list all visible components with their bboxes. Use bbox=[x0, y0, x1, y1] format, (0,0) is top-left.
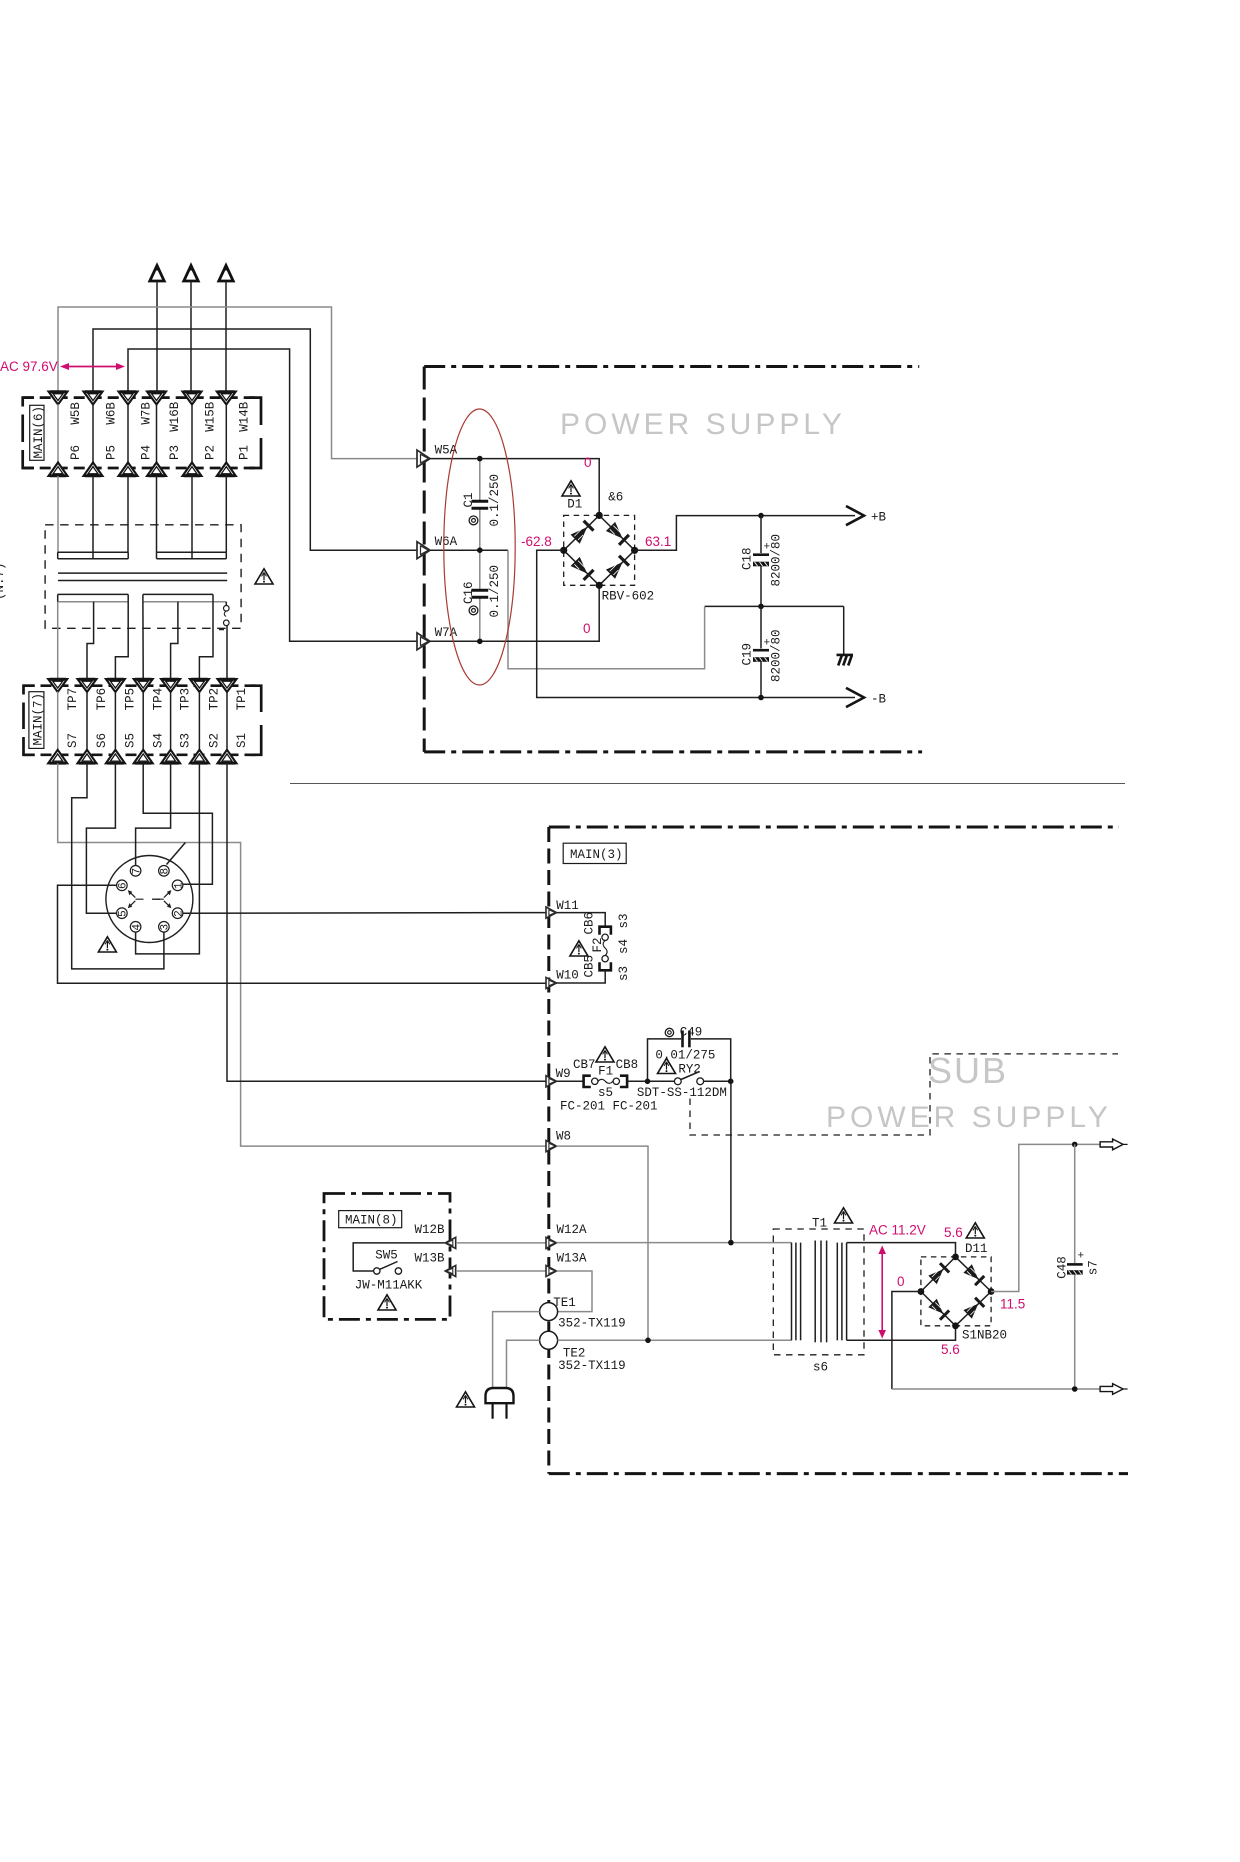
section title POWER SUPPLY bbox=[560, 408, 846, 441]
wire S5 to round pin 5 bbox=[86, 763, 116, 913]
round connector pin 4 bbox=[130, 922, 143, 933]
section title SUB bbox=[928, 1050, 1008, 1091]
connector pin TP3/S3 bbox=[161, 679, 180, 763]
capacitor C48 bbox=[1055, 1144, 1100, 1389]
pin label S7 bbox=[66, 733, 80, 748]
fuse F1 with holders CB7/CB8 bbox=[557, 1058, 658, 1114]
junction node C18/+B bbox=[758, 513, 764, 519]
svg-text:F1: F1 bbox=[598, 1065, 613, 1079]
wire W13A to TE1 bbox=[557, 1271, 593, 1312]
svg-text:MAIN(6): MAIN(6) bbox=[32, 406, 46, 459]
input arrow W5A bbox=[417, 444, 458, 468]
off-page connector arrow 1 bbox=[150, 263, 164, 281]
svg-text:C49: C49 bbox=[680, 1025, 703, 1039]
output arrow W12B bbox=[415, 1223, 456, 1248]
round connector pin 8 bbox=[159, 866, 172, 877]
transformer secondary winding left group bbox=[58, 594, 129, 601]
svg-text:SW5: SW5 bbox=[375, 1249, 398, 1263]
svg-text:CB6: CB6 bbox=[582, 912, 596, 935]
svg-text:MAIN(7): MAIN(7) bbox=[31, 693, 45, 746]
wire bbox=[190, 281, 192, 392]
svg-text:W11: W11 bbox=[556, 899, 579, 913]
connector pin P5 bbox=[84, 392, 103, 477]
svg-text:AC 11.2V: AC 11.2V bbox=[869, 1223, 926, 1238]
diode bridge D11 S1NB20 bbox=[918, 1254, 995, 1330]
svg-text:CB5: CB5 bbox=[582, 955, 596, 978]
svg-text:P5: P5 bbox=[104, 445, 118, 460]
svg-text:W13A: W13A bbox=[557, 1252, 588, 1266]
svg-text:(N.7): (N.7) bbox=[0, 562, 7, 600]
junction node RY2 left bbox=[645, 1079, 651, 1085]
svg-text:-B: -B bbox=[871, 693, 887, 707]
wire T1 secondary bottom to D11 bbox=[847, 1326, 956, 1341]
junction node RY2 right bbox=[728, 1079, 734, 1085]
transformer T1 bbox=[773, 1216, 864, 1374]
MAIN(3) block border bbox=[549, 827, 1128, 1474]
pin label TP1 bbox=[235, 688, 249, 711]
wire RY2 to T1 primary top bbox=[730, 1081, 732, 1242]
pin label W7B bbox=[139, 402, 153, 425]
wire round pin 2 to W11 feed bbox=[183, 912, 546, 915]
wire TE1 to plug bbox=[493, 1312, 540, 1387]
input arrow W11 bbox=[546, 899, 579, 918]
svg-text:W8: W8 bbox=[556, 1130, 571, 1144]
input arrow W8 bbox=[546, 1130, 571, 1152]
svg-text:W6B: W6B bbox=[104, 402, 118, 425]
svg-text:C1: C1 bbox=[462, 492, 476, 507]
junction node W5A/C1 bbox=[477, 456, 483, 462]
capacitor C49 bbox=[648, 1025, 731, 1081]
wire W12B to W12A bbox=[456, 1242, 546, 1244]
mid rail wire bbox=[705, 605, 844, 607]
thermal switch on secondary tap bbox=[219, 602, 229, 630]
svg-text:352-TX119: 352-TX119 bbox=[558, 1359, 626, 1373]
svg-text:RBV-602: RBV-602 bbox=[602, 590, 655, 604]
svg-text:FC-201 FC-201: FC-201 FC-201 bbox=[560, 1100, 658, 1114]
connector pin TP7/S7 bbox=[48, 679, 67, 763]
junction node W8/TE2 bbox=[645, 1338, 651, 1344]
pin label W5B bbox=[69, 402, 83, 425]
wire secondary to TP5 bbox=[115, 602, 128, 679]
svg-text:TE1: TE1 bbox=[553, 1296, 576, 1310]
+B rail and arrow bbox=[761, 506, 887, 525]
connector MAIN(7) bbox=[24, 686, 262, 755]
warning triangle near F2 bbox=[570, 941, 588, 956]
svg-text:C18: C18 bbox=[740, 547, 754, 570]
transformer primary winding right group bbox=[157, 552, 227, 559]
svg-text:S5: S5 bbox=[124, 733, 138, 748]
wire D11 right node to output rail bbox=[991, 1144, 1075, 1291]
connector pin TP2/S2 bbox=[190, 679, 209, 763]
junction node C48 top bbox=[1072, 1142, 1078, 1148]
wire W8 to TE2 rail bbox=[557, 1146, 649, 1340]
svg-text:+B: +B bbox=[871, 511, 887, 525]
pin label S1 bbox=[235, 733, 249, 748]
pin label TP5 bbox=[124, 688, 138, 711]
svg-text:POWER SUPPLY: POWER SUPPLY bbox=[826, 1101, 1112, 1134]
junction node C19/-B bbox=[758, 695, 764, 701]
label RBV-602 bbox=[602, 590, 655, 604]
warning triangle near D1 bbox=[562, 481, 580, 496]
wire W13B to W13A bbox=[456, 1270, 546, 1272]
svg-text:F2: F2 bbox=[591, 937, 605, 952]
pin label S2 bbox=[208, 733, 222, 748]
svg-text:S2: S2 bbox=[208, 733, 222, 748]
wire P4 to W7A bbox=[128, 349, 417, 641]
red highlight ellipse around C1/C16 bbox=[444, 409, 515, 685]
svg-text:0: 0 bbox=[897, 1274, 905, 1289]
power transformer T (dashed outline) bbox=[45, 525, 241, 629]
-B rail and arrow bbox=[761, 688, 887, 707]
svg-text:TP2: TP2 bbox=[208, 688, 222, 711]
pin label TP4 bbox=[151, 688, 165, 711]
wire bbox=[225, 281, 227, 392]
svg-text:5.6: 5.6 bbox=[944, 1225, 963, 1240]
label &6 bbox=[608, 491, 623, 505]
svg-text:S4: S4 bbox=[151, 733, 165, 748]
pin label W14B bbox=[238, 401, 252, 432]
wire S3 to round pin 7 bbox=[136, 763, 171, 865]
wire secondary switch to TP1 bbox=[226, 626, 228, 679]
svg-text:TP5: TP5 bbox=[124, 688, 138, 711]
voltage label 0 bbox=[897, 1274, 905, 1289]
svg-text:6: 6 bbox=[118, 882, 130, 889]
svg-text:MAIN(3): MAIN(3) bbox=[570, 848, 623, 862]
voltage label AC 11.2V bbox=[869, 1223, 926, 1238]
wire primary drop P5 bbox=[92, 476, 94, 552]
svg-text:RY2: RY2 bbox=[678, 1062, 701, 1076]
warning triangle near transformer bbox=[255, 569, 273, 584]
capacitor C18 bbox=[740, 516, 783, 607]
input arrow W9 bbox=[546, 1067, 571, 1087]
svg-text:W5B: W5B bbox=[69, 402, 83, 425]
round connector body bbox=[106, 856, 193, 943]
svg-text:s7: s7 bbox=[1087, 1260, 1101, 1275]
pin label W6B bbox=[104, 402, 118, 425]
off-page connector arrow 3 bbox=[219, 263, 233, 281]
svg-text:5: 5 bbox=[118, 910, 130, 917]
svg-text:0.01/275: 0.01/275 bbox=[655, 1049, 715, 1063]
wire D1 left node to -B rail bbox=[537, 550, 761, 697]
svg-text:P3: P3 bbox=[168, 445, 182, 460]
connector MAIN(8) bbox=[324, 1194, 450, 1320]
voltage label 5.6 top bbox=[944, 1225, 963, 1240]
warning triangle near D11 bbox=[966, 1223, 984, 1238]
connector pin TP6/S6 bbox=[78, 679, 97, 763]
connector pin P6 bbox=[49, 392, 68, 477]
transformer primary winding left group bbox=[58, 552, 129, 559]
svg-text:5.6: 5.6 bbox=[941, 1342, 960, 1357]
connector pin TP1/S1 bbox=[218, 679, 237, 763]
warning triangle in MAIN(8) bbox=[378, 1295, 396, 1310]
wire D1 right node to +B rail bbox=[635, 516, 761, 551]
svg-text:1: 1 bbox=[173, 882, 185, 889]
warning triangle near round connector bbox=[98, 937, 116, 952]
wire D11 left node to bottom rail bbox=[892, 1292, 1075, 1390]
svg-text:P1: P1 bbox=[238, 445, 252, 460]
svg-text:TP3: TP3 bbox=[179, 688, 193, 711]
connector pin P2 bbox=[183, 392, 202, 477]
label D11 bbox=[965, 1242, 988, 1256]
svg-text:W15B: W15B bbox=[203, 401, 217, 432]
svg-text:11.5: 11.5 bbox=[1000, 1297, 1025, 1312]
junction node C18/C19 bbox=[758, 604, 764, 610]
svg-text:0.1/250: 0.1/250 bbox=[488, 474, 502, 527]
svg-text:T1: T1 bbox=[812, 1216, 827, 1230]
svg-text:W13B: W13B bbox=[415, 1252, 446, 1266]
wire TE2 to plug bbox=[507, 1340, 540, 1387]
label D1 bbox=[567, 498, 582, 512]
svg-text:8200/80: 8200/80 bbox=[770, 534, 784, 587]
svg-text:POWER SUPPLY: POWER SUPPLY bbox=[560, 408, 846, 441]
svg-text:+: + bbox=[1078, 1251, 1085, 1263]
transformer secondary winding right group bbox=[143, 594, 226, 601]
wire secondary to TP4 bbox=[142, 602, 144, 679]
svg-text:W9: W9 bbox=[556, 1067, 571, 1081]
svg-text:MAIN(8): MAIN(8) bbox=[345, 1214, 398, 1228]
wire S2 to round pin 4 bbox=[136, 763, 200, 954]
voltage label 5.6 bottom bbox=[941, 1342, 960, 1357]
wire W12A to T1 primary bbox=[557, 1242, 792, 1244]
svg-text:W14B: W14B bbox=[238, 401, 252, 432]
svg-text:S1: S1 bbox=[235, 733, 249, 748]
warning triangle near RY2 bbox=[658, 1058, 676, 1073]
transformer core bbox=[58, 573, 227, 580]
voltage label 63.1 bbox=[645, 534, 671, 549]
connector MAIN(6) bbox=[23, 398, 261, 468]
wire W5A to D1 top bbox=[430, 459, 599, 515]
svg-text:2: 2 bbox=[173, 910, 185, 917]
wire S4 to round pin 1 bbox=[143, 763, 212, 884]
pin label P3 bbox=[168, 445, 182, 460]
wire primary drop P1 bbox=[225, 476, 227, 552]
SUB POWER SUPPLY dashed outline bbox=[690, 1054, 1118, 1135]
wire secondary to TP2 bbox=[199, 602, 213, 679]
svg-text:SDT-SS-112DM: SDT-SS-112DM bbox=[637, 1086, 727, 1100]
voltage label 0 bbox=[584, 455, 592, 470]
round connector pin 7 bbox=[130, 866, 143, 877]
svg-text:W12A: W12A bbox=[557, 1223, 588, 1237]
pin label P5 bbox=[104, 445, 118, 460]
svg-text:352-TX119: 352-TX119 bbox=[558, 1316, 626, 1330]
wire T1 secondary top to D11 bbox=[847, 1243, 956, 1257]
input arrow W12A bbox=[546, 1223, 587, 1248]
svg-text:3: 3 bbox=[160, 924, 172, 931]
output rail top with arrow bbox=[1075, 1139, 1128, 1150]
svg-text:P6: P6 bbox=[69, 445, 83, 460]
svg-text:D11: D11 bbox=[965, 1242, 988, 1256]
svg-text:TP4: TP4 bbox=[151, 688, 165, 711]
wire primary drop P4 bbox=[127, 476, 129, 552]
svg-text:CB8: CB8 bbox=[616, 1058, 639, 1072]
svg-text:S7: S7 bbox=[66, 733, 80, 748]
svg-text:s3: s3 bbox=[617, 966, 631, 981]
pin label S6 bbox=[95, 733, 109, 748]
connector pin P3 bbox=[147, 392, 166, 477]
svg-text:P2: P2 bbox=[203, 445, 217, 460]
wire S1 to W9 feed bbox=[227, 763, 546, 1081]
round connector pin 5 bbox=[117, 908, 130, 919]
wire primary drop P3 bbox=[156, 476, 158, 552]
pin label S4 bbox=[151, 733, 165, 748]
svg-text:7: 7 bbox=[131, 868, 143, 875]
voltage label 11.5 bbox=[1000, 1297, 1025, 1312]
chassis ground bbox=[837, 655, 854, 666]
relay RY2 SDT-SS-112DM bbox=[637, 1062, 731, 1100]
wire P6 to W5A bbox=[58, 307, 417, 459]
pin label TP3 bbox=[179, 688, 193, 711]
wire secondary to TP3 bbox=[171, 602, 178, 679]
wire S7 to W8 feed bbox=[58, 763, 546, 1146]
pin label S5 bbox=[124, 733, 138, 748]
svg-text:&6: &6 bbox=[608, 491, 623, 505]
pin label TP2 bbox=[208, 688, 222, 711]
rotated page reference text (N.7) bbox=[0, 562, 7, 600]
wire primary drop P2 bbox=[191, 476, 193, 552]
wire bbox=[156, 281, 158, 392]
svg-text:s6: s6 bbox=[813, 1360, 828, 1374]
pin label TP6 bbox=[95, 688, 109, 711]
voltage label AC 97.6V with measure arrow bbox=[0, 359, 125, 374]
svg-text:P4: P4 bbox=[139, 445, 153, 460]
terminal TE1 bbox=[540, 1296, 626, 1331]
round connector pin 6 bbox=[117, 880, 130, 891]
svg-text:0.1/250: 0.1/250 bbox=[488, 565, 502, 618]
junction node W7A/C16 bbox=[477, 639, 483, 645]
svg-text:C19: C19 bbox=[740, 643, 754, 666]
svg-text:AC 97.6V: AC 97.6V bbox=[0, 359, 58, 374]
horizontal page separator line bbox=[290, 783, 1125, 785]
wire secondary to TP7 bbox=[57, 602, 59, 679]
connector label MAIN(3) bbox=[563, 843, 626, 863]
round connector pin 2 bbox=[172, 908, 185, 919]
input arrow W7A bbox=[417, 626, 458, 650]
wire round pin 8 diagonal bbox=[167, 843, 186, 865]
pin label P4 bbox=[139, 445, 153, 460]
wire primary drop P6 bbox=[57, 476, 59, 552]
svg-text:TE2: TE2 bbox=[563, 1346, 586, 1360]
pin label W16B bbox=[168, 401, 182, 432]
wire S6 to round pin 3 bbox=[72, 763, 164, 969]
off-page connector arrow 2 bbox=[184, 263, 198, 281]
output arrow W13B bbox=[415, 1252, 456, 1277]
pin label P2 bbox=[203, 445, 217, 460]
round connector pin 1 bbox=[172, 880, 185, 891]
warning triangle near T1 bbox=[835, 1208, 853, 1223]
svg-text:JW-M11AKK: JW-M11AKK bbox=[355, 1278, 423, 1292]
svg-text:8200/80: 8200/80 bbox=[770, 629, 784, 682]
svg-text:CB7: CB7 bbox=[573, 1058, 596, 1072]
svg-text:D1: D1 bbox=[567, 498, 582, 512]
input arrow W6A bbox=[417, 535, 458, 559]
svg-text:63.1: 63.1 bbox=[645, 534, 671, 549]
POWER SUPPLY block border bbox=[424, 367, 922, 752]
junction node W6A/C1/C16 bbox=[477, 547, 483, 553]
voltage label -62.8 bbox=[521, 534, 552, 549]
svg-text:-62.8: -62.8 bbox=[521, 534, 552, 549]
connector pin P4 bbox=[119, 392, 138, 477]
connector pin TP5/S5 bbox=[106, 679, 125, 763]
svg-text:C16: C16 bbox=[462, 581, 476, 604]
label S1NB20 bbox=[962, 1328, 1007, 1342]
input arrow W10 bbox=[546, 969, 579, 989]
svg-text:S1NB20: S1NB20 bbox=[962, 1328, 1007, 1342]
magenta measure arrow AC 11.2V bbox=[878, 1246, 886, 1339]
svg-text:W10: W10 bbox=[556, 969, 579, 983]
pin label P6 bbox=[69, 445, 83, 460]
warning triangle near plug bbox=[457, 1392, 475, 1407]
svg-text:W6A: W6A bbox=[435, 535, 458, 549]
svg-text:W16B: W16B bbox=[168, 401, 182, 432]
wire W7A to D1 bottom bbox=[430, 586, 599, 641]
wire P5 to W6A bbox=[93, 329, 417, 550]
round connector pin 3 bbox=[159, 922, 172, 933]
input arrow W13A bbox=[546, 1252, 587, 1277]
diode bridge D1 RBV-602 bbox=[560, 512, 638, 589]
AC plug bbox=[486, 1388, 514, 1419]
svg-text:W12B: W12B bbox=[415, 1223, 446, 1237]
wire round pin 6 to W10 feed bbox=[58, 885, 546, 983]
pin label P1 bbox=[238, 445, 252, 460]
svg-text:S3: S3 bbox=[179, 733, 193, 748]
svg-text:s4: s4 bbox=[617, 939, 631, 954]
wire secondary to TP6 bbox=[87, 602, 94, 679]
junction node RY2/T1 bbox=[728, 1240, 734, 1246]
wire W6A to ground rail riser bbox=[430, 550, 705, 669]
svg-text:SUB: SUB bbox=[928, 1050, 1008, 1091]
svg-text:0: 0 bbox=[583, 621, 591, 636]
fuse F2 with holders CB5/CB6 bbox=[557, 912, 632, 983]
section title POWER SUPPLY (sub) bbox=[826, 1101, 1112, 1134]
pin label TP7 bbox=[66, 688, 80, 711]
svg-text:0: 0 bbox=[584, 455, 592, 470]
svg-text:s5: s5 bbox=[598, 1086, 613, 1100]
svg-text:s3: s3 bbox=[617, 913, 631, 928]
svg-text:C48: C48 bbox=[1055, 1256, 1069, 1279]
wire mid rail to chassis ground bbox=[843, 606, 845, 655]
pin label W15B bbox=[203, 401, 217, 432]
terminal TE2 bbox=[540, 1331, 626, 1373]
svg-text:8: 8 bbox=[160, 868, 172, 875]
svg-text:TP6: TP6 bbox=[95, 688, 109, 711]
svg-text:4: 4 bbox=[131, 924, 143, 931]
switch SW5 JW-M11AKK bbox=[353, 1243, 444, 1293]
capacitor C19 bbox=[740, 606, 783, 697]
wire TE2 to T1 primary bottom bbox=[558, 1339, 792, 1341]
junction node C48 bottom bbox=[1072, 1386, 1078, 1392]
pin label S3 bbox=[179, 733, 193, 748]
svg-text:TP1: TP1 bbox=[235, 688, 249, 711]
svg-text:S6: S6 bbox=[95, 733, 109, 748]
voltage label 0 bbox=[583, 621, 591, 636]
connector pin TP4/S4 bbox=[134, 679, 153, 763]
warning triangle near F1 bbox=[596, 1047, 614, 1062]
svg-text:W7B: W7B bbox=[139, 402, 153, 425]
svg-text:TP7: TP7 bbox=[66, 688, 80, 711]
connector pin P1 bbox=[217, 392, 236, 477]
capacitor C16 bbox=[462, 550, 502, 641]
output rail bottom with arrow bbox=[1075, 1384, 1128, 1395]
capacitor C1 bbox=[462, 459, 502, 551]
svg-text:W7A: W7A bbox=[435, 626, 458, 640]
